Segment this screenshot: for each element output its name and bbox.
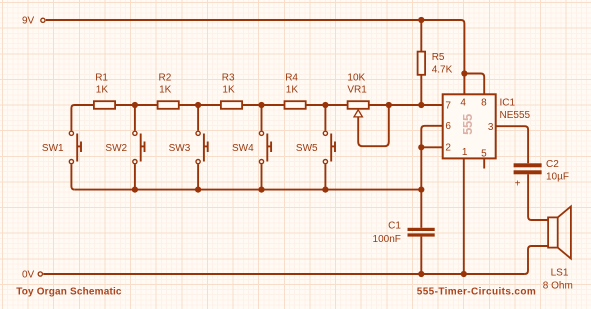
svg-text:0V: 0V [22, 269, 35, 280]
svg-text:555: 555 [460, 114, 475, 135]
junction dot 0V / C1 [418, 271, 424, 277]
wire R5 vertical 9V to pin7 row [420, 20, 422, 105]
svg-text:Toy Organ Schematic: Toy Organ Schematic [16, 287, 122, 298]
wire SW2 bottom drop [134, 164, 136, 189]
svg-text:SW1: SW1 [42, 143, 64, 154]
speaker LS1 body [548, 206, 571, 258]
svg-text:1: 1 [462, 147, 468, 158]
svg-text:1K: 1K [286, 85, 299, 96]
wire pin 2 horizontal [421, 146, 442, 148]
svg-text:SW3: SW3 [169, 143, 191, 154]
wire pin 5 stub [483, 158, 485, 168]
resistor R1 body [94, 101, 115, 109]
wire pin 6 jog down to pin 2 node [421, 126, 442, 148]
svg-text:SW4: SW4 [232, 143, 254, 154]
wire SW5 top drop [324, 105, 326, 131]
svg-text:+: + [515, 179, 521, 190]
wire SW3 bottom drop [197, 164, 199, 189]
resistor R3 body [221, 101, 242, 109]
svg-text:R3: R3 [222, 72, 235, 83]
junction dot bottom rail / C1 [418, 187, 424, 193]
junction dot rail SW4 [258, 187, 264, 193]
svg-text:3: 3 [488, 122, 494, 133]
switch SW5 [323, 131, 335, 164]
wire SW4 bottom drop [261, 164, 263, 189]
junction dot VR1 wiper / row [386, 102, 392, 108]
wire SW4 top drop [261, 105, 263, 131]
svg-text:R2: R2 [159, 72, 172, 83]
svg-text:NE555: NE555 [500, 110, 531, 121]
wire 9V rail to pin 4 drop [421, 20, 464, 94]
junction dot pin4/pin8 branch [461, 70, 467, 76]
svg-text:10µF: 10µF [546, 171, 569, 182]
svg-text:555-Timer-Circuits.com: 555-Timer-Circuits.com [417, 287, 536, 298]
svg-text:IC1: IC1 [500, 98, 516, 109]
svg-text:C2: C2 [546, 159, 559, 170]
junction dot rail SW3 [195, 187, 201, 193]
wire pin 8 branch [464, 74, 484, 95]
svg-text:VR1: VR1 [347, 85, 367, 96]
wire SW5 bottom drop [324, 164, 326, 189]
potentiometer VR1 wiper arrow [354, 110, 362, 117]
svg-text:9V: 9V [22, 16, 35, 27]
svg-text:4: 4 [460, 98, 466, 109]
svg-text:10K: 10K [347, 72, 365, 83]
svg-text:4.7K: 4.7K [432, 64, 453, 75]
switch SW3 [196, 131, 208, 164]
resistor R2 body [158, 101, 179, 109]
wire speaker bottom return to 0V rail [525, 246, 549, 274]
svg-text:R4: R4 [285, 72, 298, 83]
capacitor C2 10uF plates [514, 163, 542, 174]
wire switches bottom rail [75, 189, 422, 191]
junction dot pins 2/6 [418, 144, 424, 150]
svg-text:5: 5 [481, 148, 487, 159]
junction dot rail SW2 [132, 187, 138, 193]
svg-text:7: 7 [445, 100, 451, 111]
wire 9V rail [46, 19, 422, 21]
switch SW2 [133, 131, 145, 164]
resistor R4 body [285, 101, 306, 109]
wire resistor row (pin 7 line) [71, 105, 442, 131]
node 9V terminal [41, 18, 45, 22]
svg-text:1K: 1K [222, 85, 235, 96]
junction dot 0V / pin1 [461, 271, 467, 277]
junction dot row / R5 / pin7 [418, 102, 424, 108]
wire C2 bottom to speaker top [528, 174, 548, 220]
svg-text:SW5: SW5 [296, 143, 318, 154]
IC U1 NE555 body [443, 94, 496, 158]
junction dot rail SW5 [322, 187, 328, 193]
svg-text:R5: R5 [432, 52, 445, 63]
wire rail to C1 top [420, 190, 422, 228]
svg-text:1K: 1K [159, 85, 172, 96]
switch SW4 [259, 131, 271, 164]
resistor R5 4.7K body [418, 52, 426, 75]
capacitor C1 100nF plates [408, 228, 435, 237]
junction dot row SW3 [195, 102, 201, 108]
wire C1 bottom to 0V rail [420, 237, 422, 274]
svg-text:LS1: LS1 [551, 268, 569, 279]
wire pin 1 drop to 0V [463, 158, 465, 274]
svg-text:1K: 1K [96, 85, 109, 96]
wire SW2 top drop [134, 105, 136, 131]
wire pins 2/6 node down to bottom rail [420, 147, 422, 189]
svg-text:C1: C1 [388, 220, 401, 231]
svg-text:R1: R1 [95, 72, 108, 83]
wire pin 3 to C2 [496, 126, 528, 163]
junction dot row SW4 [258, 102, 264, 108]
svg-text:6: 6 [445, 121, 451, 132]
svg-text:SW2: SW2 [105, 143, 127, 154]
wire SW1 bottom to rail [71, 164, 74, 189]
wire SW3 top drop [197, 105, 199, 131]
junction dot row SW5 [322, 102, 328, 108]
junction dot row SW2 [132, 102, 138, 108]
svg-text:100nF: 100nF [373, 234, 401, 245]
wire 0V rail [43, 273, 524, 275]
switch SW1 [69, 131, 81, 164]
potentiometer VR1 body [348, 101, 369, 109]
wire VR1 wiper to row [358, 105, 389, 146]
junction dot 9V rail / R5 [418, 17, 424, 23]
node 0V terminal [38, 272, 42, 276]
svg-text:8 Ohm: 8 Ohm [543, 281, 573, 292]
svg-text:2: 2 [445, 143, 451, 154]
svg-text:8: 8 [481, 98, 487, 109]
